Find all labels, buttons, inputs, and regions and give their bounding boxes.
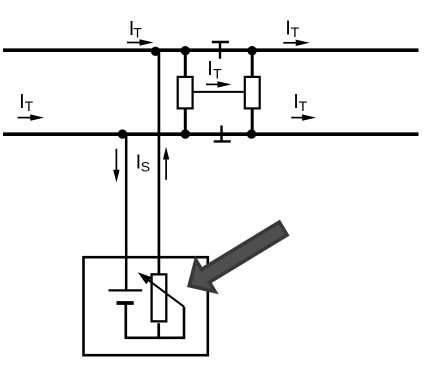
svg-text:T: T <box>299 98 308 114</box>
svg-text:S: S <box>141 159 150 175</box>
svg-text:T: T <box>291 24 300 40</box>
svg-text:T: T <box>213 66 222 82</box>
svg-text:T: T <box>25 98 34 114</box>
svg-text:T: T <box>133 25 142 41</box>
